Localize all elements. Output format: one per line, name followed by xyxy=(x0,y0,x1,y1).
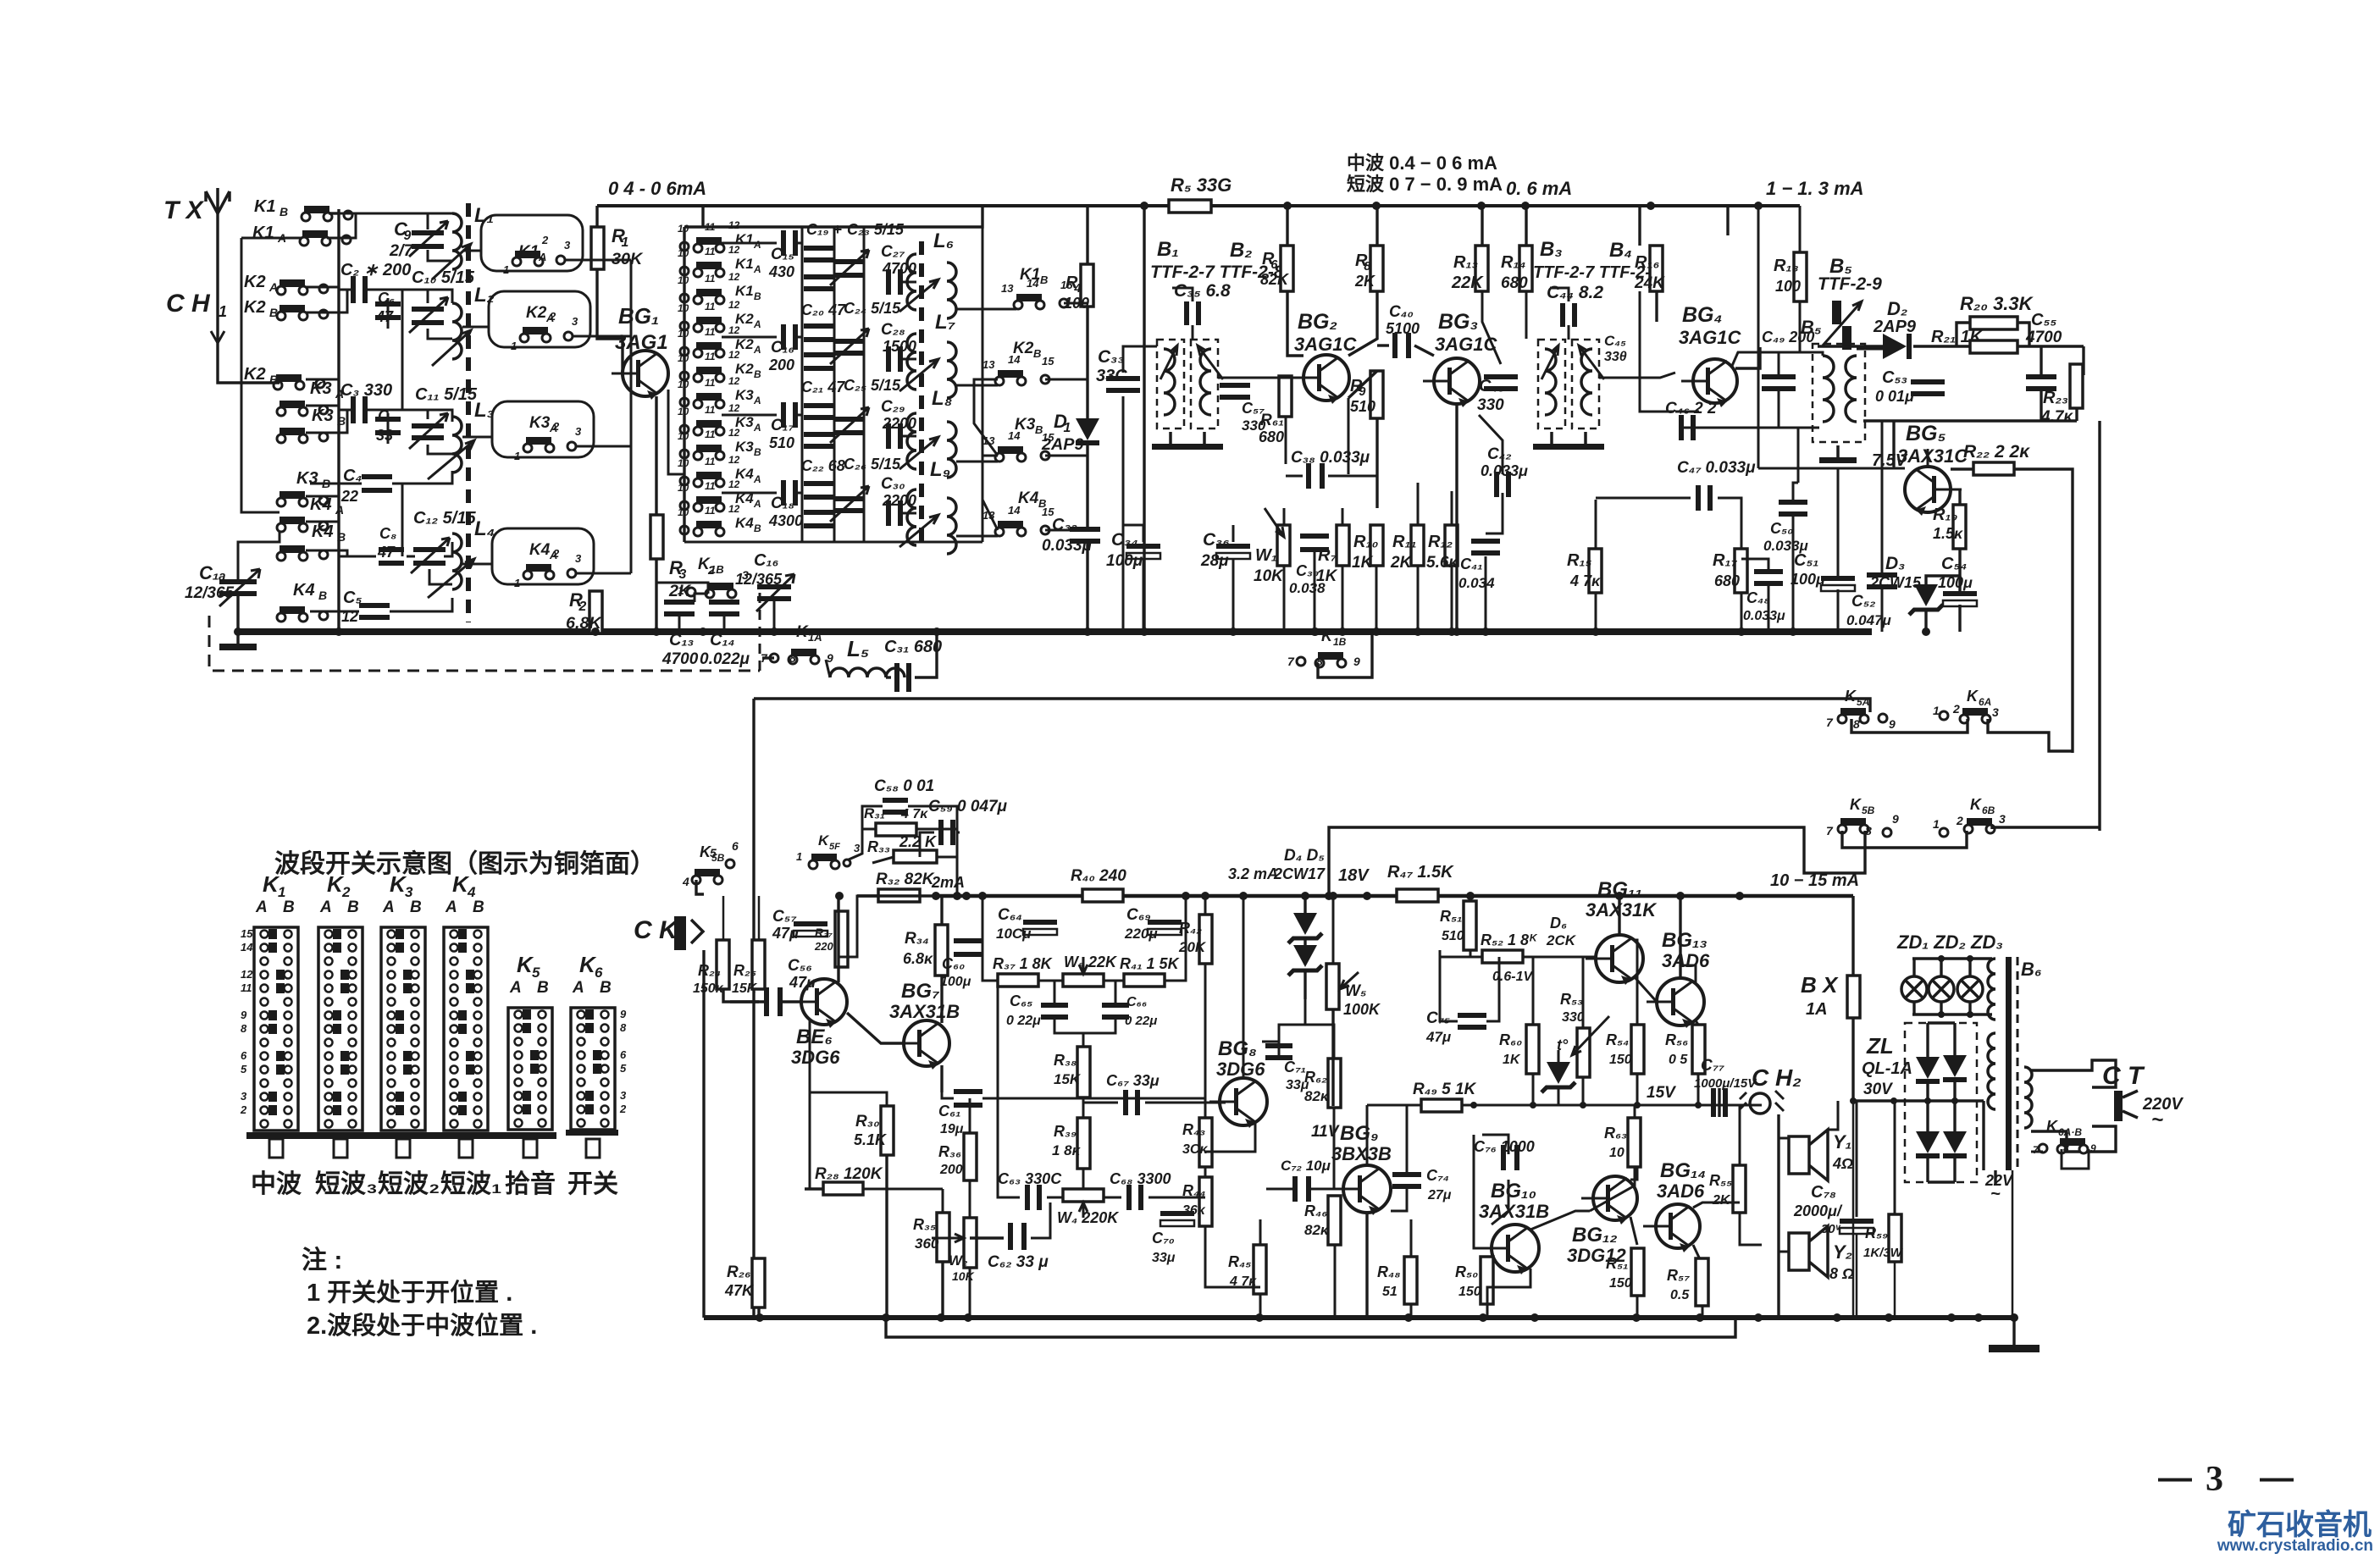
svg-text:K3: K3 xyxy=(735,387,754,403)
resistor R39 xyxy=(1077,1118,1090,1169)
wire matrix box xyxy=(701,206,704,227)
resistor R12 xyxy=(1445,525,1458,566)
svg-text:12: 12 xyxy=(241,968,253,981)
svg-text:11: 11 xyxy=(705,351,716,362)
svg-text:R₃₄: R₃₄ xyxy=(905,930,929,948)
coil L2 xyxy=(452,303,462,359)
svg-text:C₆: C₆ xyxy=(378,290,395,307)
svg-text:2.波段处于中波位置 .: 2.波段处于中波位置 . xyxy=(307,1311,537,1340)
resistor R2 xyxy=(589,591,602,633)
svg-text:K: K xyxy=(818,832,830,849)
wire K1A bot feed xyxy=(826,660,830,677)
wire R53 top xyxy=(1582,957,1585,1028)
svg-text:D₄ D₅: D₄ D₅ xyxy=(1284,847,1325,865)
svg-text:注 :: 注 : xyxy=(302,1247,342,1274)
trimmer row1 xyxy=(830,250,869,285)
wire C5 row xyxy=(339,611,359,613)
wire C54 to bus xyxy=(1958,605,1961,632)
junction dots audio bus xyxy=(835,892,1744,900)
svg-text:5: 5 xyxy=(241,1063,247,1075)
capacitor C12 xyxy=(411,538,450,573)
svg-text:C₂₉: C₂₉ xyxy=(881,398,905,416)
switch K6B xyxy=(1933,796,2006,837)
wire K1B right out xyxy=(1064,302,1088,305)
svg-text:3AD6: 3AD6 xyxy=(1662,950,1710,971)
capacitor C6 xyxy=(375,301,401,320)
wire BG3 down xyxy=(1455,404,1458,632)
wire BG13 emit xyxy=(1696,1020,1698,1025)
svg-text:47μ: 47μ xyxy=(772,925,799,942)
svg-text:0 4 - 0 6mA: 0 4 - 0 6mA xyxy=(608,178,706,199)
wire antenna down xyxy=(218,343,280,383)
legend switch K3 body xyxy=(381,927,425,1131)
svg-text:BG₅: BG₅ xyxy=(1906,422,1946,445)
svg-text:0 01μ: 0 01μ xyxy=(1875,388,1914,405)
wire R24 stub xyxy=(723,989,759,1002)
svg-text:82κ: 82κ xyxy=(1304,1088,1330,1104)
capacitor C59 xyxy=(938,820,955,845)
svg-text:1: 1 xyxy=(621,235,628,250)
svg-text:R₆₃: R₆₃ xyxy=(1604,1125,1627,1142)
svg-text:R₂₄: R₂₄ xyxy=(698,962,721,979)
wire R19 to D3 xyxy=(1926,549,1960,584)
wire to K5B xyxy=(1329,827,1865,896)
legend switch K3 label xyxy=(382,871,422,916)
wire B4 to BG4 xyxy=(1599,373,1675,378)
loop K4A xyxy=(492,528,594,584)
wire C63W4 gap xyxy=(1047,1197,1063,1199)
transformer B6 secondary xyxy=(1988,1033,1995,1109)
coil L9 secondary xyxy=(947,498,956,554)
wire C10 to L2 xyxy=(428,329,452,339)
wire rect v2b xyxy=(1953,1079,1956,1131)
transistor BG8 xyxy=(1209,1078,1267,1128)
svg-text:6: 6 xyxy=(620,1048,627,1061)
label C20 C24 xyxy=(801,300,901,318)
svg-text:K1: K1 xyxy=(254,197,276,216)
wire C27 to L6 xyxy=(902,281,916,284)
svg-text:1.5κ: 1.5κ xyxy=(1933,525,1963,542)
coil core dashed line xyxy=(466,203,471,622)
wire R14 col xyxy=(1525,206,1527,246)
pot W2 arrow xyxy=(932,1234,964,1242)
svg-text:BG₃: BG₃ xyxy=(1438,310,1478,334)
wire C35 top xyxy=(1172,288,1193,301)
wire matrix right xyxy=(982,227,984,542)
svg-text:R₁₆: R₁₆ xyxy=(1635,253,1659,272)
wire R32 left xyxy=(857,894,878,897)
wire BG5 emitter xyxy=(1958,489,1961,505)
svg-text:6B: 6B xyxy=(1982,804,1995,816)
wire BG13 col xyxy=(1679,896,1681,978)
svg-text:82K: 82K xyxy=(1260,271,1290,288)
svg-text:B: B xyxy=(318,589,327,602)
svg-text:BG₁₄: BG₁₄ xyxy=(1660,1159,1706,1182)
wire K right loop2 xyxy=(982,456,998,530)
wire rect bottom xyxy=(1928,1180,1955,1183)
svg-text:3.2 mA: 3.2 mA xyxy=(1228,865,1278,882)
wire R3 to bus xyxy=(655,559,657,632)
wire B1 top xyxy=(1143,206,1145,632)
wire C67 right xyxy=(1145,1102,1220,1104)
switch K4A xyxy=(277,495,344,532)
jack CK xyxy=(674,916,703,950)
svg-text:11: 11 xyxy=(705,377,716,389)
wire C38 right xyxy=(1328,418,1377,476)
label R8 xyxy=(1354,252,1376,290)
svg-text:12/365: 12/365 xyxy=(185,584,235,602)
wire R34 top xyxy=(940,896,943,925)
svg-text:0.047μ: 0.047μ xyxy=(1846,612,1892,628)
svg-text:C₁₅: C₁₅ xyxy=(771,246,794,263)
transistor BG4 xyxy=(1681,359,1737,407)
capacitor C56 xyxy=(764,987,783,1016)
svg-text:C₃₈ 0.033μ: C₃₈ 0.033μ xyxy=(1291,449,1370,467)
wire C41 col xyxy=(1485,556,1487,632)
capacitor C63 xyxy=(1025,1185,1042,1210)
svg-text:C₅₈ 0 01: C₅₈ 0 01 xyxy=(874,777,934,795)
wire C12 to L4 xyxy=(429,569,452,584)
svg-text:B: B xyxy=(347,898,359,916)
connector CT lines xyxy=(2031,1060,2116,1087)
diode ZL4 xyxy=(1943,1131,1967,1158)
transistor BG3 xyxy=(1423,358,1480,407)
transformer B1 box xyxy=(1157,340,1184,428)
wire C3 to C7 xyxy=(368,409,388,412)
svg-text:C₆₆: C₆₆ xyxy=(1126,995,1147,1009)
trimmer row3 xyxy=(830,407,869,443)
svg-text:7: 7 xyxy=(1826,716,1834,729)
capacitor C42 xyxy=(1494,472,1511,497)
dashed bottom segment xyxy=(759,593,761,671)
wire C4 right xyxy=(392,471,452,484)
svg-text:0. 6 mA: 0. 6 mA xyxy=(1506,178,1572,199)
svg-text:1: 1 xyxy=(511,340,517,352)
wire R25 top xyxy=(758,896,761,940)
svg-text:13: 13 xyxy=(1001,282,1014,295)
wire C8 row xyxy=(339,556,376,558)
legend tab K6 xyxy=(586,1139,600,1158)
svg-text:C₅₂: C₅₂ xyxy=(1851,593,1875,611)
svg-text:12: 12 xyxy=(728,427,740,439)
resistor R63 xyxy=(1628,1118,1641,1167)
wire K1Bb to caps xyxy=(695,594,708,602)
wire R12 top xyxy=(1451,491,1453,525)
resistor R26 xyxy=(752,1258,765,1307)
svg-text:B: B xyxy=(1033,347,1041,360)
switch K1A matrix row 1 xyxy=(678,219,761,252)
svg-text:12/365: 12/365 xyxy=(735,571,783,588)
svg-text:6: 6 xyxy=(1270,258,1278,272)
svg-text:15V: 15V xyxy=(1647,1084,1676,1102)
svg-text:10Cμ: 10Cμ xyxy=(996,926,1032,942)
svg-text:2CW17: 2CW17 xyxy=(1273,865,1326,882)
wire K2A row xyxy=(306,286,339,289)
svg-text:K4: K4 xyxy=(312,522,334,541)
transformer B5 coil left xyxy=(1823,356,1834,422)
svg-text:R₄₉ 5 1K: R₄₉ 5 1K xyxy=(1413,1081,1477,1098)
wire C40 to BG3 xyxy=(1414,346,1434,356)
svg-text:B: B xyxy=(1040,274,1048,286)
capacitor C77 xyxy=(1711,1088,1728,1117)
svg-text:A: A xyxy=(268,280,278,294)
svg-text:3: 3 xyxy=(620,1089,627,1102)
svg-text:K2: K2 xyxy=(244,298,266,317)
capacitor C40 xyxy=(1392,333,1411,358)
legend switch K6 label xyxy=(572,952,612,997)
wire R62 bot xyxy=(1333,1108,1336,1189)
svg-text:C₁₄: C₁₄ xyxy=(710,631,735,650)
svg-text:22K: 22K xyxy=(1451,274,1484,292)
wire K4A row xyxy=(306,521,339,523)
svg-text:0.034: 0.034 xyxy=(1458,575,1495,591)
svg-text:C₄₁: C₄₁ xyxy=(1460,556,1483,572)
wire R62 top xyxy=(1333,1033,1336,1059)
wire W5 top xyxy=(1332,896,1335,964)
svg-text:11: 11 xyxy=(705,480,716,492)
svg-text:R₄₃: R₄₃ xyxy=(1182,1121,1205,1138)
wire BG5 base xyxy=(1892,421,1895,467)
legend switch K4 body xyxy=(444,927,488,1131)
svg-text:D₃: D₃ xyxy=(1885,554,1905,573)
wire R2021 junction xyxy=(1957,323,1970,346)
lamp ZD3 xyxy=(1957,976,1983,1002)
svg-text:—: — xyxy=(2260,1459,2294,1496)
svg-text:C₆₇ 33μ: C₆₇ 33μ xyxy=(1106,1072,1160,1089)
resistor R6 xyxy=(1281,246,1293,291)
wire loop4 out xyxy=(577,572,631,575)
wire R44 bot xyxy=(1205,1226,1260,1287)
svg-text:R₅₅: R₅₅ xyxy=(1709,1172,1732,1189)
svg-text:12: 12 xyxy=(728,402,740,414)
wire L8 sec to K3B xyxy=(956,461,998,463)
coil L8 secondary xyxy=(947,422,956,478)
wire BG6 emit xyxy=(810,1020,887,1106)
wire R53 bot xyxy=(1582,1077,1585,1105)
resistor R56 xyxy=(1692,1025,1705,1074)
capacitor C27 label xyxy=(881,243,916,277)
svg-text:R₄₇ 1.5K: R₄₇ 1.5K xyxy=(1387,863,1454,882)
svg-text:A: A xyxy=(255,898,268,916)
svg-text:C₅₃: C₅₃ xyxy=(1882,368,1907,387)
wire matrix row feed4 xyxy=(722,492,777,495)
svg-text:BG₇: BG₇ xyxy=(901,980,940,1003)
wire R38R39 mid xyxy=(1082,1097,1085,1118)
transformer B2 box xyxy=(1191,340,1218,428)
wire BG2 emit xyxy=(1348,398,1350,474)
resistor R25 xyxy=(752,940,765,989)
switch K4A matrix row 11 xyxy=(678,478,761,511)
arrow L1 core xyxy=(432,244,471,279)
legend switch K4 label xyxy=(445,871,484,916)
antenna CH1 arrow xyxy=(211,312,224,343)
svg-text:3AG1C: 3AG1C xyxy=(1679,327,1741,348)
svg-text:R₁₅: R₁₅ xyxy=(1567,551,1591,570)
pot W5 arrow xyxy=(1340,972,1359,989)
wire C51 col xyxy=(1837,589,1840,632)
switch K1B bottom xyxy=(678,556,749,598)
wire rect mid xyxy=(1853,1099,1984,1102)
svg-text:C₃₂: C₃₂ xyxy=(1052,516,1077,534)
resistor W4 pot xyxy=(1063,1189,1104,1202)
svg-text:2mA: 2mA xyxy=(931,874,965,891)
wire R49 left xyxy=(1367,1104,1421,1107)
svg-text:220: 220 xyxy=(814,940,833,953)
capacitor C71 xyxy=(1265,1043,1292,1060)
transistor BG1 xyxy=(612,351,668,400)
resistor R10 label xyxy=(1352,533,1378,572)
svg-text:1: 1 xyxy=(514,577,520,589)
capacitor C38 xyxy=(1306,463,1325,489)
legend switch K2 body xyxy=(318,927,363,1131)
wire BG1 emit col xyxy=(668,390,684,474)
resistor R11 xyxy=(1411,525,1424,566)
resistor R7 xyxy=(1337,525,1349,566)
resistor R41 xyxy=(1124,974,1165,987)
svg-text:100μ: 100μ xyxy=(1791,571,1825,588)
wire B6 down xyxy=(2012,1170,2014,1318)
wire C29 to L8 xyxy=(902,435,916,438)
svg-text:L₇: L₇ xyxy=(935,311,956,334)
wire C34 top xyxy=(1123,525,1143,542)
wire R14 down xyxy=(1525,291,1528,339)
svg-text:—: — xyxy=(2158,1459,2192,1496)
wire C76 left xyxy=(1482,1135,1508,1154)
wire B3 cap feed xyxy=(1568,325,1570,340)
antenna TX xyxy=(206,188,230,312)
svg-text:4 7κ: 4 7κ xyxy=(1569,572,1601,589)
wire R16 down xyxy=(1655,291,1658,322)
resistor R4 xyxy=(1081,264,1093,307)
transformer B6 core xyxy=(2006,957,2012,1170)
svg-text:8: 8 xyxy=(1853,717,1860,731)
svg-text:R₃₀: R₃₀ xyxy=(855,1113,880,1131)
svg-text:2: 2 xyxy=(541,234,549,246)
resistor R33 xyxy=(894,850,937,863)
svg-text:1: 1 xyxy=(1933,817,1940,831)
pot W1 arrow xyxy=(1265,508,1284,537)
svg-text:10K: 10K xyxy=(952,1269,975,1283)
svg-text:C₂₄ 5/15: C₂₄ 5/15 xyxy=(844,300,901,317)
svg-text:14: 14 xyxy=(1008,429,1021,442)
svg-text:2: 2 xyxy=(552,547,560,560)
svg-text:330: 330 xyxy=(1562,1010,1585,1025)
wire left rail K1A xyxy=(241,237,302,240)
switch K2B right xyxy=(982,340,1054,385)
svg-text:11V: 11V xyxy=(1311,1123,1340,1141)
wire BG4 to B5 xyxy=(1735,347,1760,368)
wire R46 col xyxy=(1334,1245,1337,1318)
svg-text:C H: C H xyxy=(166,290,211,318)
svg-text:12: 12 xyxy=(728,454,740,466)
wire rect top xyxy=(1928,1021,1955,1024)
svg-text:C₆₁: C₆₁ xyxy=(938,1103,961,1119)
lamp ZD2 xyxy=(1929,976,1954,1002)
svg-text:R₅₄: R₅₄ xyxy=(1606,1031,1629,1048)
wire matrix row feed1 xyxy=(722,242,777,245)
svg-text:1: 1 xyxy=(503,263,509,276)
capacitor C78 xyxy=(1840,1219,1874,1234)
wire BG5 right xyxy=(1951,467,1973,470)
svg-text:A: A xyxy=(753,395,761,406)
capacitor C74 xyxy=(1392,1172,1421,1189)
wire 2460 down xyxy=(2082,346,2084,375)
svg-text:Y₂: Y₂ xyxy=(1833,1241,1852,1263)
switch K3A right xyxy=(514,414,582,462)
switch K3B xyxy=(277,406,346,443)
svg-text:3: 3 xyxy=(241,1090,247,1103)
capacitor C15 xyxy=(781,230,798,256)
wire C65 col xyxy=(1054,981,1056,1004)
resistor R35 xyxy=(937,1213,949,1262)
svg-text:C₁₃: C₁₃ xyxy=(669,631,694,650)
svg-text:12: 12 xyxy=(728,349,740,361)
wire B1 left stub xyxy=(1123,346,1157,373)
svg-text:C₃₃: C₃₃ xyxy=(1098,347,1125,367)
resistor R11 label xyxy=(1390,533,1417,572)
junction dots bus xyxy=(699,627,1930,636)
wire R50 bot xyxy=(1486,1304,1489,1318)
svg-text:33: 33 xyxy=(376,427,393,444)
legend switch K5 label xyxy=(509,952,549,997)
svg-text:3: 3 xyxy=(1992,705,1999,719)
svg-text:C₆₃ 330C: C₆₃ 330C xyxy=(998,1170,1062,1187)
svg-text:C₅₁: C₅₁ xyxy=(1794,551,1818,570)
wire col 475b xyxy=(401,484,404,556)
wire C62 right xyxy=(1031,1202,1050,1238)
resistor R48 xyxy=(1404,1257,1417,1304)
capacitor C16 xyxy=(781,324,798,350)
coil L9 xyxy=(907,489,916,545)
svg-text:0 22μ: 0 22μ xyxy=(1006,1014,1041,1028)
svg-text:1: 1 xyxy=(1063,421,1071,435)
wire matrix left rail xyxy=(683,227,685,542)
wire R51a top xyxy=(1470,896,1472,901)
capacitor C44 xyxy=(1560,303,1577,327)
transistor BG11 xyxy=(1586,935,1643,985)
speaker Y2 xyxy=(1789,1226,1828,1277)
capacitor C54 xyxy=(1943,591,1977,606)
wire BG4 out xyxy=(1732,352,1798,366)
switch K1A bottom xyxy=(761,623,833,665)
label R3 xyxy=(668,557,692,600)
wire matrix frame top xyxy=(684,206,982,227)
resistor R23 xyxy=(2070,364,2083,408)
svg-text:B X: B X xyxy=(1801,972,1839,998)
wire C76 right xyxy=(1492,1180,1508,1225)
capacitor C55 xyxy=(2026,374,2056,391)
capacitor C47 xyxy=(1696,485,1713,511)
wire rect v1c xyxy=(1926,1155,1929,1182)
svg-text:K4: K4 xyxy=(293,581,315,600)
svg-text:9: 9 xyxy=(241,1009,247,1021)
wire R51a bot xyxy=(1470,950,1472,957)
junction dots top rail xyxy=(1140,202,1763,210)
svg-text:R₂₀ 3.3K: R₂₀ 3.3K xyxy=(1960,293,2034,314)
switch K2B second xyxy=(244,365,324,390)
svg-text:6: 6 xyxy=(732,839,739,853)
svg-text:5.6κ: 5.6κ xyxy=(1426,554,1458,572)
capacitor C52 xyxy=(1867,572,1897,589)
svg-text:BE₆: BE₆ xyxy=(796,1026,833,1048)
svg-text:4.7κ: 4.7κ xyxy=(2040,408,2073,426)
wire R35 top xyxy=(942,1189,944,1213)
wire BG7 emitter xyxy=(940,1065,943,1092)
resistor R13 xyxy=(1475,246,1488,291)
wire R49 right xyxy=(1462,1104,1474,1107)
svg-text:BG₁₀: BG₁₀ xyxy=(1491,1180,1536,1202)
svg-text:C₂₃ 5/15: C₂₃ 5/15 xyxy=(847,221,905,238)
